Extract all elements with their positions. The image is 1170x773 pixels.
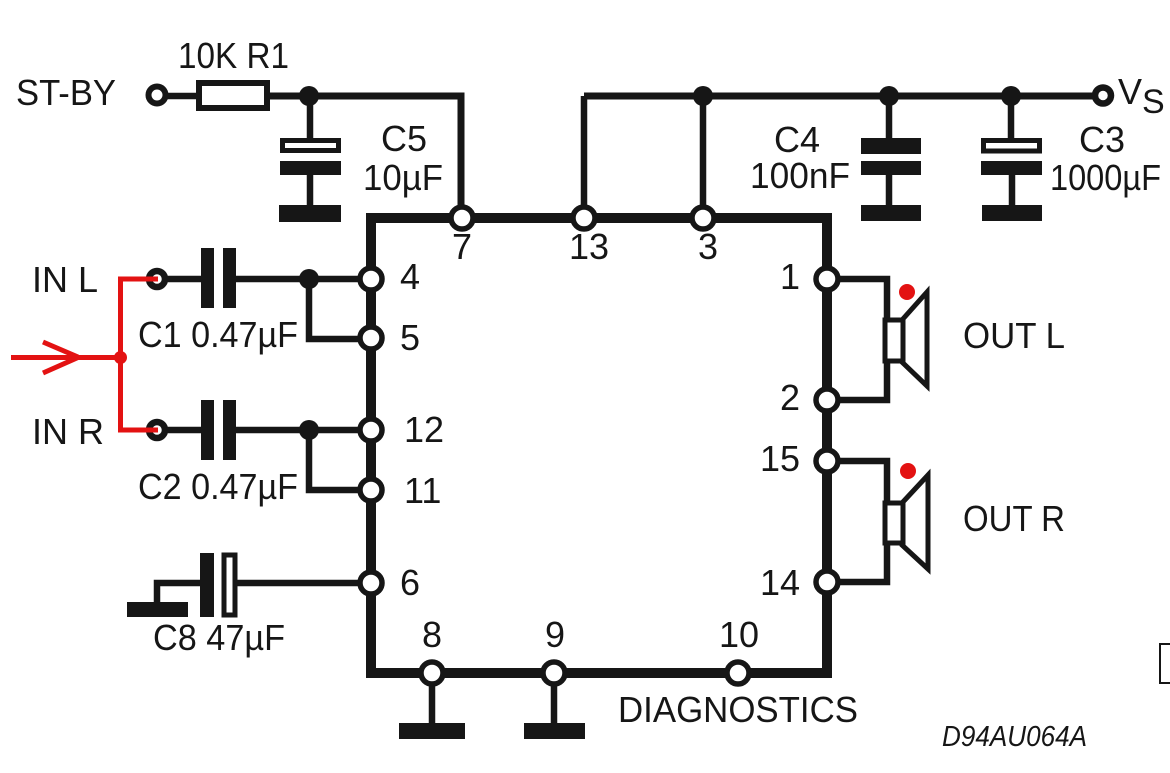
- svg-text:12: 12: [404, 409, 444, 450]
- wire pin15 to speaker R top: [832, 461, 887, 503]
- svg-text:11: 11: [404, 470, 441, 511]
- svg-text:V: V: [1118, 71, 1142, 112]
- pin 8: [421, 662, 443, 684]
- svg-text:C1 0.47µF: C1 0.47µF: [138, 314, 298, 355]
- ground pin8: [399, 723, 465, 739]
- red arrowhead: [43, 342, 78, 373]
- svg-text:C8 47µF: C8 47µF: [153, 617, 285, 658]
- svg-text:10µF: 10µF: [363, 157, 443, 198]
- node junction pin3 rail: [693, 86, 713, 106]
- wire R1 to pin7 corner (node STBY/C5): [269, 96, 461, 213]
- red dot speaker R: [900, 463, 916, 479]
- wire input red bus: [11, 279, 158, 430]
- wire C8 to pin6: [236, 580, 366, 587]
- svg-text:4: 4: [400, 256, 420, 297]
- wire pin2 to speaker L bottom: [832, 360, 887, 400]
- resistor R1: [199, 83, 267, 108]
- wire node to pin5: [309, 279, 366, 339]
- svg-text:2: 2: [780, 377, 800, 418]
- svg-text:C3: C3: [1079, 119, 1125, 160]
- node junction C1 input: [299, 269, 319, 289]
- wire pin3 riser: [700, 96, 707, 213]
- frame corner mark: [1160, 644, 1170, 683]
- ground C4: [861, 205, 921, 221]
- node red junction: [114, 351, 127, 364]
- ground pin9: [524, 723, 585, 739]
- speaker OUT R driver: [885, 503, 903, 543]
- wire top supply rail to VS: [584, 93, 1094, 100]
- svg-text:9: 9: [545, 614, 565, 655]
- speaker OUT L cone: [902, 292, 927, 386]
- pin 7: [451, 207, 473, 229]
- wire C1 to pin4: [236, 276, 366, 283]
- svg-text:C4: C4: [774, 119, 820, 160]
- wire pin8 to ground: [429, 678, 436, 724]
- wire C4 branch down: [886, 96, 893, 140]
- capacitor C5: [280, 141, 341, 176]
- pin 3: [692, 207, 714, 229]
- wire node to pin11: [309, 430, 366, 490]
- pin 13: [573, 207, 595, 229]
- svg-text:1000µF: 1000µF: [1050, 157, 1161, 198]
- terminal IN L: [149, 271, 165, 287]
- wire C3 branch down: [1008, 96, 1015, 140]
- wire IN L terminal to C1: [160, 276, 201, 283]
- wire red arrow shaft: [11, 355, 121, 360]
- wire C4 to ground: [886, 173, 893, 206]
- svg-text:OUT L: OUT L: [963, 315, 1065, 356]
- pin 4: [360, 268, 382, 290]
- node junction C4 rail: [879, 86, 899, 106]
- capacitor C4: [861, 138, 921, 175]
- ground C5: [279, 205, 341, 222]
- svg-text:ST-BY: ST-BY: [16, 72, 116, 113]
- pin 1: [816, 268, 838, 290]
- pin 10: [727, 662, 749, 684]
- pin 14: [816, 571, 838, 593]
- svg-text:15: 15: [760, 438, 800, 479]
- pin 6: [360, 572, 382, 594]
- svg-text:S: S: [1142, 83, 1165, 121]
- terminal ST-BY: [149, 87, 166, 104]
- wire IN R terminal to C2: [160, 427, 201, 434]
- svg-text:IN L: IN L: [32, 259, 98, 300]
- svg-text:IN R: IN R: [32, 411, 104, 452]
- wire pin1 to speaker L top: [832, 279, 887, 320]
- pin 5: [360, 327, 382, 349]
- capacitor C2: [201, 400, 236, 460]
- speaker OUT L driver: [885, 320, 903, 361]
- wire C3 to ground: [1009, 173, 1016, 206]
- red dot speaker L: [899, 284, 915, 300]
- wire ST-BY to R1: [163, 93, 197, 100]
- svg-text:D94AU064A: D94AU064A: [942, 721, 1087, 753]
- wire C8 left to ground: [157, 583, 201, 604]
- pin 2: [816, 389, 838, 411]
- svg-text:6: 6: [400, 562, 420, 603]
- svg-text:14: 14: [760, 562, 800, 603]
- IC body U1: [371, 218, 827, 673]
- svg-text:OUT R: OUT R: [963, 498, 1065, 539]
- ground C3: [982, 205, 1042, 221]
- pin 12: [360, 419, 382, 441]
- svg-text:5: 5: [400, 317, 420, 358]
- svg-text:1: 1: [780, 256, 800, 297]
- speaker OUT R cone: [902, 475, 928, 569]
- svg-text:C5: C5: [381, 118, 427, 159]
- terminal IN R: [149, 422, 165, 438]
- wire C5 to ground: [307, 173, 314, 206]
- wire pin9 to ground: [551, 678, 558, 724]
- svg-text:100nF: 100nF: [750, 155, 850, 196]
- pin 11: [360, 479, 382, 501]
- svg-text:10: 10: [719, 614, 759, 655]
- wire pin14 to speaker R bottom: [832, 543, 887, 582]
- capacitor C8: [200, 553, 235, 617]
- svg-text:10K R1: 10K R1: [178, 35, 289, 76]
- node junction R1/C5: [299, 86, 319, 106]
- node junction C3 rail: [1001, 86, 1021, 106]
- capacitor C1: [201, 248, 236, 308]
- svg-text:DIAGNOSTICS: DIAGNOSTICS: [618, 689, 858, 730]
- wire C2 to pin12: [236, 427, 366, 434]
- capacitor C3: [981, 141, 1042, 176]
- wire pin13 riser: [581, 96, 588, 213]
- ground C8: [127, 602, 188, 617]
- svg-text:3: 3: [698, 226, 718, 267]
- svg-text:13: 13: [569, 226, 609, 267]
- pin 15: [816, 450, 838, 472]
- svg-text:C2 0.47µF: C2 0.47µF: [138, 466, 298, 507]
- node junction C2 input: [299, 420, 319, 440]
- wire C5 branch down: [307, 96, 314, 140]
- svg-text:7: 7: [452, 226, 472, 267]
- svg-text:8: 8: [422, 614, 442, 655]
- pin 9: [543, 662, 565, 684]
- terminal VS: [1095, 88, 1111, 104]
